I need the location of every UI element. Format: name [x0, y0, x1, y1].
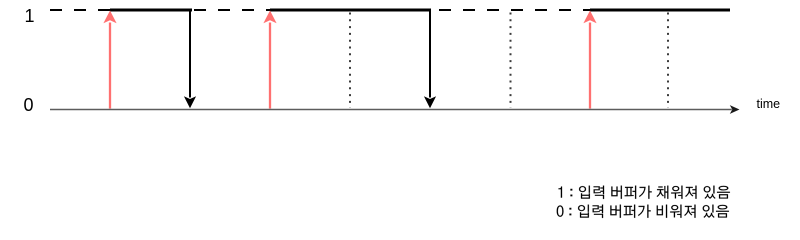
- red up arrow 1 head: [103, 11, 116, 24]
- svg-text:1: 1: [25, 6, 35, 26]
- svg-text:time: time: [757, 97, 781, 111]
- legend line 1: 1 : input buffer filled: [558, 186, 729, 199]
- thick high segment B: [270, 9, 431, 12]
- legend line 2: 0 : input buffer emptied: [557, 205, 729, 218]
- svg-text:0: 0: [24, 95, 34, 115]
- red up arrow 2 head: [263, 11, 276, 24]
- red up arrow 3 head: [583, 11, 596, 24]
- red up arrow 1 shaft: [109, 23, 111, 109]
- dotted vertical line 2: [510, 13, 512, 109]
- black down arrow 2 head: [424, 96, 436, 108]
- red up arrow 3 shaft: [589, 23, 591, 109]
- time axis arrowhead: [730, 105, 740, 114]
- time axis line: [50, 109, 732, 111]
- black down arrow 1 head: [184, 96, 196, 108]
- dashed high-level line segment 3: [439, 9, 590, 11]
- red up arrow 2 shaft: [269, 23, 271, 109]
- dashed high-level line segment 1: [50, 9, 110, 11]
- thick high segment A: [110, 9, 192, 12]
- black down arrow 2 shaft: [429, 10, 431, 98]
- dashed high-level line segment 2: [194, 9, 270, 11]
- black down arrow 1 shaft: [189, 10, 191, 98]
- dotted vertical line 3: [667, 13, 669, 109]
- thick high segment C: [590, 9, 730, 12]
- dotted vertical line 1: [349, 13, 351, 109]
